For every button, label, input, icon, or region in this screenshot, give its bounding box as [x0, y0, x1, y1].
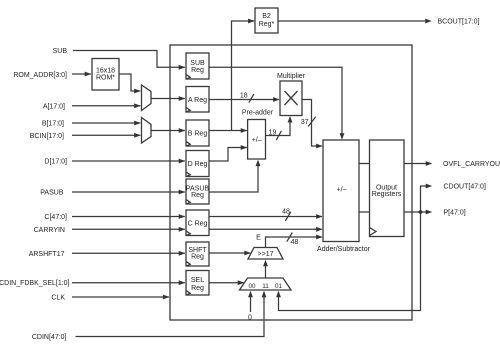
svg-text:ROM_ADDR[3:0]: ROM_ADDR[3:0]: [13, 72, 67, 79]
wire P feedback to mux input 01: [279, 212, 421, 311]
arrowhead into A Reg: [179, 96, 186, 101]
wire D input: [72, 160, 185, 162]
arrowhead into C Reg lower: [179, 227, 186, 232]
wire mux A to A Reg: [151, 98, 185, 100]
arrowhead BCOUT: [425, 19, 432, 24]
arrowhead into SHFT Reg: [179, 251, 186, 256]
wire B Reg output to pre-adder: [209, 130, 247, 132]
register A Reg: [186, 87, 209, 113]
wire multiplier output to adder: [302, 100, 322, 147]
wire PASUB Reg output to pre-adder bottom: [209, 165, 258, 193]
clock wedge A Reg: [186, 108, 190, 112]
arrowhead A Reg into multiplier: [273, 97, 280, 102]
arrowhead P output: [426, 210, 433, 215]
svg-text:CLK: CLK: [51, 295, 65, 302]
svg-text:+/–: +/–: [252, 137, 262, 144]
arrowhead PASUB into pre-adder bottom: [256, 160, 261, 167]
svg-text:SUB: SUB: [190, 60, 205, 67]
wire A input: [72, 105, 140, 107]
arrowhead BCIN into mux B: [134, 133, 141, 138]
wire adder to output registers lower: [359, 211, 370, 213]
svg-text:Reg: Reg: [191, 254, 204, 261]
arrowhead CLK into slice: [163, 295, 170, 300]
svg-text:Multiplier: Multiplier: [277, 73, 306, 80]
bus slash C 48: [285, 212, 291, 221]
svg-text:CDOUT[47:0]: CDOUT[47:0]: [444, 184, 486, 191]
svg-text:00: 00: [248, 283, 256, 290]
multiplier X symbol: [285, 91, 298, 105]
wire C input: [72, 216, 185, 218]
svg-text:SEL: SEL: [191, 277, 204, 284]
svg-text:ARSHFT17: ARSHFT17: [29, 251, 65, 258]
arrowhead B into mux B: [134, 121, 141, 126]
svg-text:01: 01: [275, 283, 283, 290]
register C Reg: [186, 210, 209, 236]
svg-text:A[17:0]: A[17:0]: [43, 103, 65, 110]
arrowhead into C Reg upper: [179, 214, 186, 219]
clock wedge C Reg: [186, 231, 190, 235]
svg-text:Reg*: Reg*: [259, 21, 275, 28]
arrowhead ROM into mux A: [134, 89, 141, 94]
wire CDIN input to mux input 11: [76, 296, 265, 337]
wire ROM output to mux A: [119, 74, 140, 91]
DSP slice boundary box: [170, 45, 412, 320]
svg-text:CDIN[47:0]: CDIN[47:0]: [32, 334, 67, 341]
register B2 Reg: [255, 8, 278, 33]
bus slash multiplier 37: [308, 117, 316, 127]
bus slash A 18: [249, 94, 254, 103]
svg-text:BCOUT[17:0]: BCOUT[17:0]: [438, 19, 480, 26]
wire mux output to shifter: [265, 265, 267, 278]
svg-text:CARRYIN: CARRYIN: [34, 227, 65, 234]
ROM block 16x18 ROM: [92, 59, 119, 91]
svg-text:11: 11: [262, 283, 269, 290]
wire P output: [404, 211, 427, 213]
svg-text:E: E: [256, 234, 261, 241]
wire pre-adder output to multiplier: [266, 121, 291, 136]
clock wedge D Reg: [186, 172, 190, 176]
arrowhead into B Reg: [179, 128, 186, 133]
arrowhead E into adder: [316, 235, 323, 240]
arrowhead B Reg into pre-adder: [241, 128, 248, 133]
register B Reg: [186, 120, 209, 146]
svg-text:C[47:0]: C[47:0]: [44, 214, 67, 221]
svg-text:0: 0: [248, 314, 252, 321]
wire OVFL_CARRYOUT output: [404, 163, 427, 165]
svg-text:A Reg: A Reg: [188, 97, 207, 104]
wire PASUB input: [72, 191, 185, 193]
wire SUB Reg output to adder top: [209, 67, 342, 134]
svg-text:PASUB: PASUB: [40, 190, 64, 197]
svg-text:Registers: Registers: [372, 191, 402, 198]
wire CARRYIN input: [72, 228, 185, 230]
svg-text:C Reg: C Reg: [188, 220, 208, 227]
arrowhead C into adder: [316, 214, 323, 219]
pre-adder block: [248, 120, 266, 160]
mux CDIN feedback select: [240, 278, 292, 290]
svg-text:B[17:0]: B[17:0]: [42, 121, 64, 128]
arrowhead into D Reg: [179, 159, 186, 164]
wire CDIN_FDBK_SEL input: [72, 282, 185, 284]
svg-text:37: 37: [301, 119, 309, 126]
arrowhead D path into pre-adder: [241, 145, 248, 150]
svg-text:Pre-adder: Pre-adder: [242, 109, 274, 116]
svg-text:18: 18: [240, 93, 248, 100]
arrowhead into ROM: [85, 72, 92, 77]
clock wedge output registers: [370, 228, 377, 236]
junction dot P branch: [419, 210, 423, 214]
arrowhead SUB into adder top: [340, 133, 345, 140]
wire adder to output registers upper: [359, 163, 370, 165]
wire CLK input: [72, 296, 169, 298]
register SUB Reg: [186, 53, 209, 79]
bus slash pre-adder 19: [276, 131, 281, 140]
output registers block: [370, 140, 405, 237]
arrowhead mux into shifter bottom: [263, 260, 268, 267]
svg-text:Reg: Reg: [191, 192, 204, 199]
arrowhead carry into adder: [316, 227, 323, 232]
wire D Reg output to pre-adder: [209, 148, 247, 162]
svg-text:SUB: SUB: [53, 48, 68, 55]
clock wedge SEL Reg: [186, 291, 190, 295]
svg-text:CDIN_FDBK_SEL[1:0]: CDIN_FDBK_SEL[1:0]: [0, 280, 70, 287]
svg-text:ROM*: ROM*: [96, 74, 115, 81]
arrowhead into B2 Reg: [248, 19, 255, 24]
wire C Reg output to adder: [209, 216, 322, 218]
svg-text:D[17:0]: D[17:0]: [44, 159, 67, 166]
arrowhead multiplier into adder: [316, 144, 323, 149]
svg-text:48: 48: [282, 209, 290, 216]
arrowhead into SEL Reg: [179, 280, 186, 285]
register PASUB Reg: [186, 179, 209, 204]
clock wedge SUB Reg: [186, 75, 190, 79]
svg-text:Reg: Reg: [191, 285, 204, 292]
wire SEL Reg output to mux: [209, 282, 244, 284]
multiplier block: [280, 81, 302, 116]
clock wedge B Reg: [186, 142, 190, 146]
wire riser to B2 Reg: [232, 21, 255, 131]
svg-text:>>17: >>17: [258, 251, 274, 258]
wire ROM_ADDR input: [72, 73, 91, 75]
wire constant 0 to mux input 00: [250, 296, 252, 312]
arrowhead A into mux A: [134, 103, 141, 108]
svg-text:P[47:0]: P[47:0]: [444, 210, 466, 217]
wire mux B to B Reg: [151, 130, 185, 132]
bus slash E 48: [287, 233, 293, 242]
arrowhead CDOUT: [426, 184, 433, 189]
svg-text:Adder/Subtractor: Adder/Subtractor: [317, 246, 371, 253]
arrowhead into SUB Reg: [179, 65, 186, 70]
arrowhead into PASUB Reg: [179, 190, 186, 195]
arrowhead pre-adder into multiplier bottom: [288, 116, 293, 123]
svg-text:+/–: +/–: [337, 186, 347, 193]
svg-text:48: 48: [291, 239, 299, 246]
clock wedge SHFT Reg: [186, 262, 190, 266]
arrowhead 0 into mux 00: [248, 291, 253, 298]
register SEL Reg: [186, 271, 209, 296]
wire E shifter output to adder: [266, 237, 322, 248]
wire CDOUT branch: [421, 186, 427, 212]
svg-text:BCIN[17:0]: BCIN[17:0]: [30, 133, 64, 140]
wire B2 Reg output to BCOUT: [278, 20, 425, 22]
wire A Reg output to multiplier: [209, 99, 279, 101]
arrowhead CDIN into mux 11: [262, 291, 267, 298]
wire SUB input: [73, 51, 185, 68]
wire carry path to adder: [209, 228, 322, 230]
svg-text:19: 19: [269, 130, 277, 137]
svg-text:OVFL_CARRYOUT: OVFL_CARRYOUT: [443, 161, 500, 168]
register D Reg: [186, 151, 209, 177]
mux shift >>17: [248, 248, 283, 260]
register SHFT Reg: [186, 242, 209, 266]
arrowhead SEL into mux: [238, 280, 245, 285]
svg-text:D Reg: D Reg: [188, 161, 208, 168]
wire B input: [72, 122, 140, 124]
arrowhead P feedback into mux 01: [276, 291, 281, 298]
arrowhead SHFT into shifter: [244, 251, 251, 256]
wire SHFT Reg output to shifter: [209, 252, 250, 254]
wire BCIN input: [72, 134, 140, 136]
svg-text:B2: B2: [262, 13, 271, 20]
mux A-input: [142, 85, 152, 111]
mux B-input: [142, 118, 152, 144]
adder/subtractor block: [323, 140, 359, 242]
svg-text:Reg: Reg: [191, 67, 204, 74]
arrowhead OVFL_CARRYOUT: [426, 161, 433, 166]
svg-text:B Reg: B Reg: [188, 131, 208, 138]
wire ARSHFT17 input: [72, 252, 185, 254]
clock wedge PASUB Reg: [186, 200, 190, 204]
